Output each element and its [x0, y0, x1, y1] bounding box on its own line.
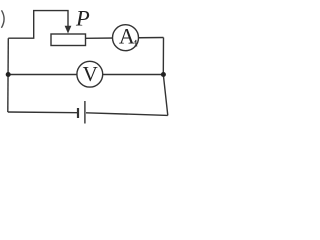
svg-text:V: V	[83, 62, 98, 86]
svg-text:P: P	[75, 5, 90, 30]
svg-text:A: A	[119, 23, 135, 48]
